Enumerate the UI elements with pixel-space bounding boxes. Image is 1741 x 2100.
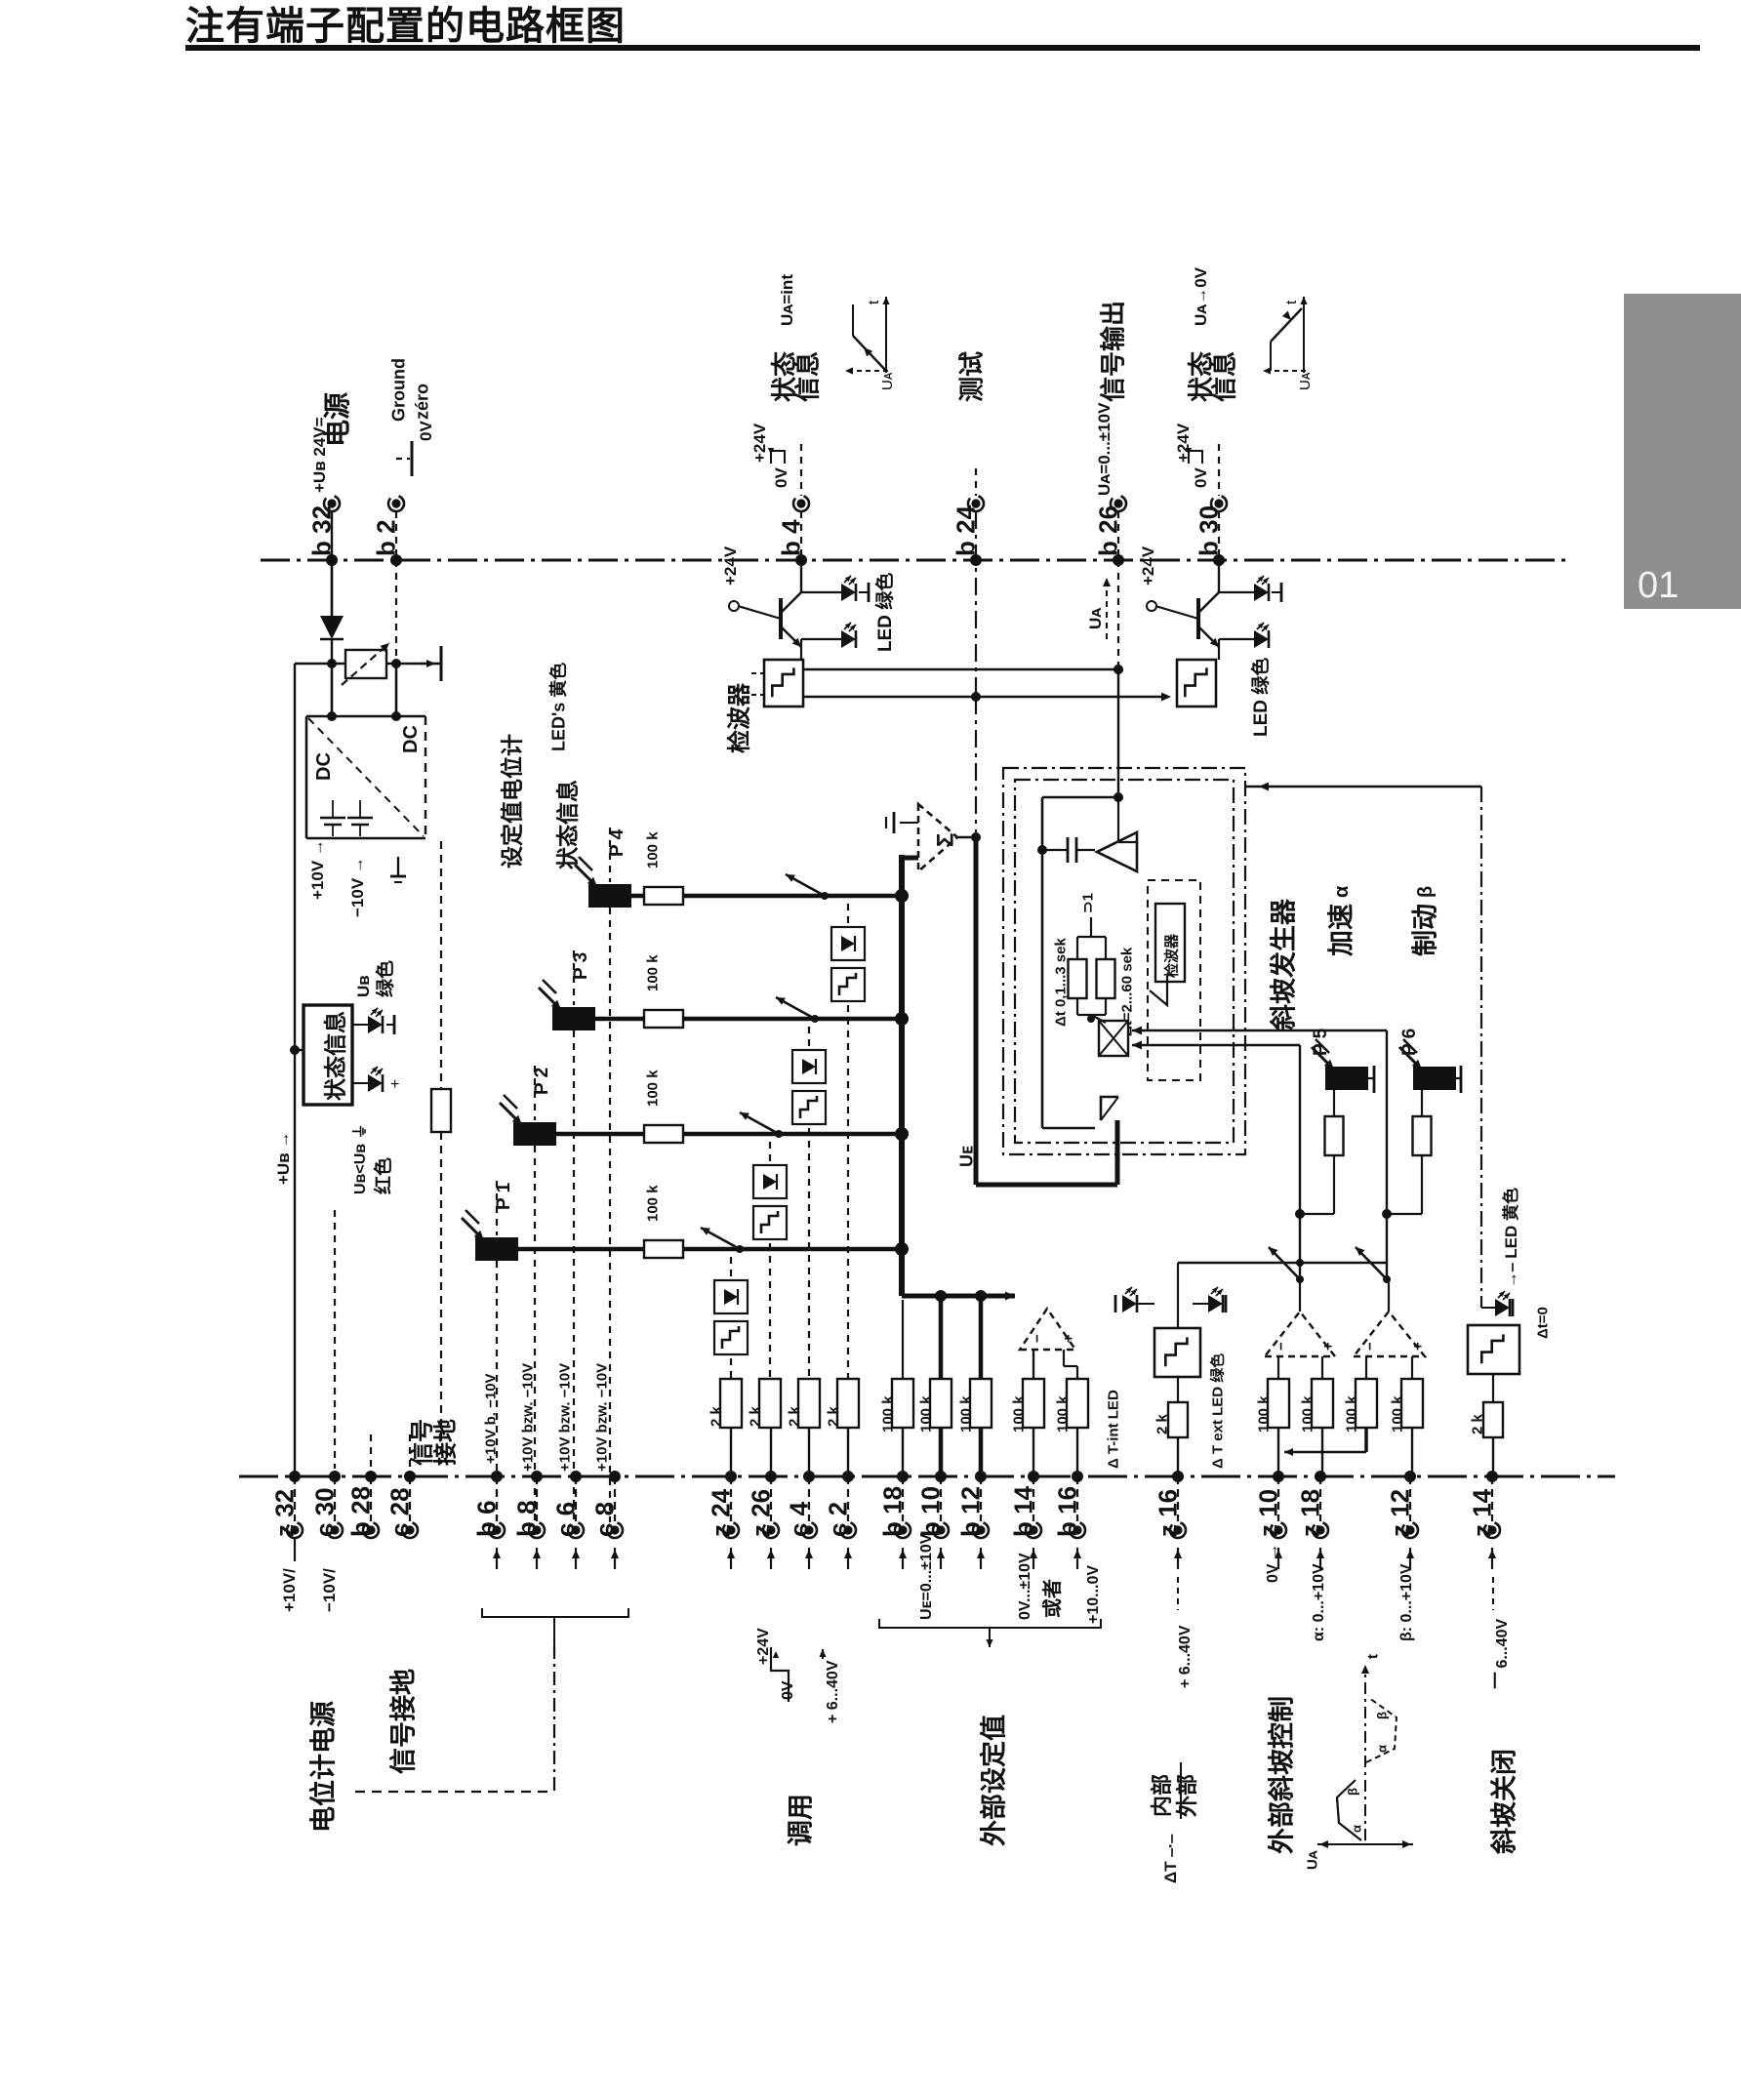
- comparator K1: [1020, 1309, 1075, 1350]
- switch beta: [1383, 1275, 1391, 1283]
- top terminal rail: [261, 559, 1566, 562]
- resistor 100k (P3): [644, 1010, 683, 1028]
- ramp box outer: [1003, 768, 1245, 1154]
- svg-text:调用: 调用: [787, 1794, 816, 1846]
- svg-text:ΔT ⎯·⎯: ΔT ⎯·⎯: [1161, 1835, 1180, 1883]
- label +6..40V (z14): [1492, 1577, 1494, 1610]
- svg-text:⎺ 6...40V: ⎺ 6...40V: [1494, 1619, 1511, 1689]
- ramp feedback lines A: [1132, 1030, 1387, 1031]
- svg-text:内部: 内部: [1150, 1774, 1174, 1817]
- svg-text:b 12: b 12: [955, 1486, 985, 1537]
- svg-text:c 30: c 30: [309, 1487, 339, 1537]
- detector dashed box (ramp): [1148, 880, 1200, 1080]
- svg-text:+10V bzw. −10V: +10V bzw. −10V: [593, 1363, 610, 1472]
- svg-text:+10V bzw. −10V: +10V bzw. −10V: [519, 1363, 536, 1472]
- ramp output wire: [1245, 786, 1481, 787]
- wiper wire P3: [595, 1017, 644, 1022]
- opto diode box x=789: [753, 1165, 787, 1198]
- wiper wire P1: [518, 1247, 644, 1252]
- svg-text:Uᴀ=int: Uᴀ=int: [778, 274, 796, 326]
- opto diode box x=829: [792, 1050, 826, 1083]
- wire to bus y=1280: [683, 1247, 902, 1252]
- trapezoid waveform sketch: [1317, 1843, 1413, 1845]
- LED b4 upper: [801, 591, 841, 593]
- resistor 100k (ref): [1356, 1379, 1377, 1428]
- svg-text:外部设定值: 外部设定值: [979, 1715, 1009, 1846]
- svg-text:检波器: 检波器: [1162, 933, 1180, 978]
- svg-text:LED 绿色: LED 绿色: [873, 573, 896, 652]
- signal-ground dash link: [553, 1645, 555, 1792]
- svg-text:+ 6...40V: + 6...40V: [825, 1660, 841, 1723]
- potentiometer P2: [513, 1122, 556, 1146]
- select wire 内部/外部: [1178, 1262, 1386, 1264]
- recall step glyph: [771, 1647, 789, 1702]
- svg-text:z 12: z 12: [1385, 1489, 1414, 1537]
- wire resistor-to-rail x=1059: [1032, 1428, 1034, 1476]
- -10V dashed feed lower: [440, 1132, 442, 1464]
- bus bottom branch: [902, 1294, 1015, 1299]
- resistor 2k (z16): [1168, 1402, 1188, 1437]
- call drop chain x=829: [808, 1027, 810, 1379]
- svg-text:红色: 红色: [372, 1157, 394, 1194]
- LED dt-ext: [1208, 1295, 1223, 1312]
- svg-text:测试: 测试: [956, 351, 986, 402]
- z14 chain wires: [1492, 1374, 1494, 1402]
- svg-text:+: +: [1319, 1342, 1336, 1351]
- svg-text:zéro: zéro: [412, 384, 431, 420]
- ramp glyph wire: [1116, 1097, 1118, 1120]
- capacitor C2 (in U1): [347, 817, 373, 820]
- wire b2 into DCDC: [395, 560, 397, 665]
- step glyph b4: [771, 451, 785, 464]
- resistor 100k (b16): [1067, 1379, 1088, 1428]
- svg-text:+10V →: +10V →: [308, 839, 327, 900]
- switch box X: [1099, 1021, 1128, 1056]
- ramp glyph: [1101, 1097, 1118, 1120]
- chassis ground (varistor): [420, 663, 435, 665]
- svg-text:t: t: [866, 300, 882, 304]
- svg-text:电位计电源: 电位计电源: [308, 1701, 339, 1833]
- terminal z 32: [289, 1471, 301, 1482]
- svg-text:01: 01: [1638, 565, 1679, 606]
- integrator out wire: [1042, 851, 1097, 853]
- wire resistor-to-rail x=1104: [1076, 1428, 1078, 1476]
- terminal b 8: [531, 1471, 543, 1482]
- svg-text:2 k: 2 k: [1154, 1413, 1170, 1434]
- ramp resistor Rb: [1097, 959, 1115, 998]
- svg-text:DC: DC: [313, 752, 335, 781]
- svg-text:0V: 0V: [417, 421, 435, 441]
- svg-text:斜坡发生器: 斜坡发生器: [1269, 898, 1299, 1031]
- -10V dashed feed: [440, 841, 442, 1089]
- terminal b 18: [897, 1471, 909, 1482]
- svg-text:100 k: 100 k: [1343, 1395, 1359, 1433]
- svg-text:+Uʙ →: +Uʙ →: [274, 1132, 293, 1185]
- svg-text:b 14: b 14: [1008, 1485, 1037, 1537]
- LED b30 upper: [1219, 591, 1254, 593]
- svg-text:−: −: [1029, 1334, 1045, 1343]
- Q2 emitter to detector: [1218, 647, 1220, 660]
- svg-text:α: α: [1350, 1825, 1364, 1833]
- op-amp integrator: [1097, 832, 1137, 871]
- ramp-off dash line: [1480, 787, 1482, 1297]
- svg-text:b 16: b 16: [1052, 1486, 1081, 1537]
- wire status box: [295, 1049, 304, 1051]
- hysteresis box z14: [1468, 1325, 1519, 1374]
- svg-text:z 14: z 14: [1467, 1488, 1496, 1537]
- terminal z 12: [1404, 1471, 1416, 1482]
- P5 resistor chain: [1333, 1090, 1335, 1116]
- status box 状态信息: [304, 1005, 352, 1105]
- switch (y=1162): [775, 1130, 783, 1138]
- c30 dashed feed: [334, 1210, 336, 1469]
- svg-text:0V: 0V: [780, 1680, 796, 1700]
- svg-text:信号: 信号: [409, 1419, 436, 1466]
- left +10V rail (vertical): [294, 664, 296, 1469]
- potentiometer P6: [1413, 1067, 1456, 1090]
- svg-text:电源: 电源: [322, 392, 352, 447]
- svg-text:α: 0...+10V: α: 0...+10V: [1311, 1563, 1327, 1641]
- comparator K3 (beta): [1354, 1312, 1425, 1356]
- opto diode box x=749: [714, 1280, 748, 1313]
- K1 inputs: [1032, 1350, 1034, 1379]
- resistor 2k x=829: [798, 1379, 820, 1428]
- svg-text:0V: 0V: [772, 467, 790, 488]
- svg-text:Δ T ext LED 绿色: Δ T ext LED 绿色: [1208, 1353, 1226, 1469]
- svg-text:Δt=0: Δt=0: [1534, 1307, 1551, 1339]
- summing bus (thick): [899, 855, 905, 1296]
- step glyph b30: [1189, 451, 1202, 464]
- resistor 100k (b18): [892, 1379, 913, 1428]
- svg-text:Ground: Ground: [388, 358, 408, 422]
- wire b30 lead: [1218, 511, 1220, 560]
- svg-text:Uᴀ: Uᴀ: [879, 372, 896, 390]
- z16 chain wires: [1177, 1304, 1179, 1328]
- wire b2 junction: [395, 665, 398, 716]
- svg-text:P 5: P 5: [1311, 1028, 1331, 1056]
- wire b4 lead: [800, 511, 802, 560]
- svg-text:100 k: 100 k: [1389, 1395, 1405, 1433]
- svg-text:−10V/: −10V/: [320, 1568, 339, 1612]
- int/ext divider: [1180, 1762, 1182, 1819]
- svg-text:LED 绿色: LED 绿色: [1249, 658, 1272, 737]
- svg-text:Uᴀ: Uᴀ: [1086, 608, 1105, 629]
- resistor 2k x=789: [759, 1379, 781, 1428]
- bus to sigma: [902, 856, 918, 861]
- svg-text:外部: 外部: [1175, 1774, 1199, 1817]
- svg-text:+10...0V: +10...0V: [1085, 1565, 1102, 1624]
- resistor R-10 (feed): [431, 1089, 451, 1132]
- svg-text:信号接地: 信号接地: [389, 1669, 419, 1774]
- resistor 100k (z10): [1268, 1379, 1289, 1428]
- svg-text:z 16: z 16: [1153, 1489, 1182, 1537]
- LED b4 lower: [800, 639, 802, 647]
- terminal b 12: [975, 1471, 987, 1482]
- terminal b 6: [491, 1471, 503, 1482]
- svg-text:β: β: [1346, 1788, 1360, 1796]
- terminal z 14: [1486, 1471, 1498, 1482]
- svg-text:b 8: b 8: [511, 1500, 541, 1537]
- comparator K2 (alpha): [1265, 1312, 1335, 1356]
- svg-text:β: β: [1415, 886, 1437, 898]
- wiper wire P4: [631, 894, 644, 899]
- svg-text:信息: 信息: [1209, 351, 1238, 402]
- terminal c 2: [842, 1471, 854, 1482]
- resistor 2k x=749: [720, 1379, 742, 1428]
- svg-text:DC: DC: [400, 725, 422, 753]
- svg-text:2 k: 2 k: [708, 1405, 724, 1427]
- terminal z 18: [1315, 1471, 1326, 1482]
- svg-text:Uᴀ→0V: Uᴀ→0V: [1192, 266, 1210, 326]
- title rule: [185, 45, 1700, 51]
- LED b30 lower: [1218, 639, 1220, 647]
- terminal c 8: [609, 1471, 621, 1482]
- terminal c 28: [404, 1471, 416, 1482]
- terminal z 10: [1273, 1471, 1284, 1482]
- capacitor C1 (in U1): [320, 817, 345, 820]
- b12 wire up (thick): [979, 1296, 984, 1379]
- feed line P1: [496, 1181, 498, 1235]
- feed line P2: [534, 1066, 536, 1120]
- svg-text:+24V: +24V: [750, 423, 769, 463]
- wire b2 lead: [395, 511, 397, 560]
- svg-text:+ 6...40V: + 6...40V: [1177, 1625, 1194, 1688]
- svg-text:b 10: b 10: [915, 1486, 945, 1537]
- resistor 100k (z12): [1401, 1379, 1423, 1428]
- wire resistor-to-rail x=1207: [1177, 1437, 1179, 1476]
- svg-text:外部斜坡控制: 外部斜坡控制: [1267, 1696, 1297, 1854]
- svg-text:z 18: z 18: [1295, 1489, 1324, 1537]
- svg-text:+24V: +24V: [1174, 423, 1193, 463]
- terminal c 6: [570, 1471, 582, 1482]
- svg-text:+: +: [390, 1076, 399, 1093]
- diode D1: [331, 560, 333, 616]
- call drop chain x=869: [847, 904, 849, 1379]
- P6 resistor chain: [1421, 1090, 1423, 1116]
- svg-text:z 24: z 24: [706, 1488, 735, 1537]
- svg-text:c 2: c 2: [823, 1502, 852, 1537]
- Q1 emitter to detector: [800, 647, 802, 660]
- svg-text:绿色: 绿色: [374, 960, 396, 997]
- resistor 100k (P2): [644, 1125, 683, 1143]
- resistor 2k x=869: [837, 1379, 859, 1428]
- line B down: [1299, 1045, 1301, 1279]
- terminal b 14: [1028, 1471, 1039, 1482]
- wire to bus y=918: [683, 894, 902, 899]
- varistor RV1: [345, 650, 386, 678]
- detector box 检波器 (2): [1177, 660, 1216, 707]
- b14 wire up: [1032, 1350, 1034, 1379]
- svg-text:状态信息: 状态信息: [554, 780, 580, 869]
- svg-text:Δt 0,1...3 sek: Δt 0,1...3 sek: [1052, 938, 1069, 1027]
- opto step box x=789: [753, 1206, 787, 1239]
- svg-text:Uᴇ: Uᴇ: [956, 1146, 976, 1167]
- label output ground: [397, 857, 399, 876]
- wire z16 up: [1177, 1263, 1179, 1304]
- LED green UB: [352, 1024, 368, 1026]
- feed line P4: [609, 828, 611, 882]
- detector wire B: [803, 696, 1165, 698]
- terminal c 4: [803, 1471, 815, 1482]
- wire resistor-to-rail x=1310: [1277, 1428, 1279, 1476]
- UE thick line: [974, 837, 979, 1185]
- terminal z 24: [725, 1471, 737, 1482]
- wire resistor-to-rail x=925: [902, 1428, 904, 1476]
- wire resistor-to-rail x=790: [770, 1428, 772, 1476]
- svg-text:100 k: 100 k: [644, 1070, 661, 1107]
- svg-text:100 k: 100 k: [644, 831, 661, 868]
- waveform sketch 2 (UA to 0): [1263, 297, 1314, 390]
- svg-text:z 10: z 10: [1253, 1489, 1282, 1537]
- sigma ground cap: [900, 822, 918, 824]
- call drop chain x=749: [730, 1257, 732, 1379]
- switch (y=918): [821, 892, 829, 900]
- svg-text:β: 0...+10V: β: 0...+10V: [1398, 1563, 1415, 1641]
- b28 stub: [370, 1434, 372, 1469]
- LED yellow: [1480, 1297, 1482, 1308]
- svg-text:Σ: Σ: [933, 833, 959, 847]
- svg-text:加速: 加速: [1327, 904, 1356, 956]
- svg-text:P 6: P 6: [1399, 1029, 1420, 1056]
- transistor Q2: [1155, 606, 1198, 619]
- ramp inner loop wires: [1042, 796, 1118, 799]
- b26/UA line: [1117, 560, 1119, 669]
- page tab 01: [1624, 294, 1741, 609]
- svg-text:α: α: [1375, 1745, 1390, 1753]
- svg-text:100 k: 100 k: [957, 1395, 974, 1433]
- svg-text:信号输出: 信号输出: [1098, 301, 1127, 402]
- UE/test line (b24): [975, 511, 977, 697]
- wire b32 into U1: [331, 664, 334, 716]
- bottom terminal rail: [239, 1475, 1615, 1478]
- call drop chain x=789: [769, 1142, 771, 1379]
- svg-text:z 26: z 26: [746, 1489, 775, 1537]
- detector wire A: [803, 668, 1118, 670]
- potentiometer P5: [1325, 1067, 1368, 1090]
- wire resistor-to-rail x=869: [847, 1428, 849, 1476]
- svg-text:Uᴇ=0...±10V: Uᴇ=0...±10V: [918, 1533, 935, 1620]
- svg-text:+: +: [1409, 1342, 1426, 1351]
- svg-text:c 8: c 8: [589, 1502, 619, 1537]
- LED red UB: [352, 1082, 368, 1084]
- svg-text:t: t: [1364, 1654, 1381, 1659]
- svg-text:2 k: 2 k: [1469, 1413, 1485, 1434]
- wire resistor-to-rail x=1530: [1492, 1437, 1494, 1476]
- svg-text:Δ T-int LED: Δ T-int LED: [1105, 1390, 1121, 1469]
- resistor 100k (P1): [644, 1240, 683, 1258]
- svg-text:b 6: b 6: [471, 1500, 501, 1537]
- svg-text:Uʙ: Uʙ: [354, 975, 373, 997]
- svg-text:z 32: z 32: [269, 1489, 299, 1537]
- svg-text:2 k: 2 k: [747, 1405, 763, 1427]
- svg-text:c 28: c 28: [385, 1487, 414, 1537]
- svg-text:+24V: +24V: [755, 1628, 772, 1665]
- UA up arrow: [1106, 578, 1108, 639]
- Q2 collector to b30: [1218, 560, 1220, 592]
- terminal b 10: [935, 1471, 947, 1482]
- svg-text:0V...±10V: 0V...±10V: [1017, 1553, 1033, 1620]
- svg-text:Uᴀ=0...±10V: Uᴀ=0...±10V: [1095, 402, 1113, 496]
- svg-text:LED's 黄色: LED's 黄色: [547, 663, 568, 751]
- resistor 100k (P4): [644, 887, 683, 905]
- brace b6-c8 (pots): [482, 1608, 628, 1617]
- integrator cap: [1067, 837, 1070, 863]
- opto diode box x=869: [831, 927, 865, 960]
- svg-text:b 28: b 28: [345, 1486, 375, 1537]
- svg-text:100 k: 100 k: [644, 954, 661, 991]
- switch (y=1044): [811, 1015, 819, 1023]
- switch (y=1280): [736, 1245, 744, 1253]
- ground zero symbol: [396, 458, 410, 460]
- ramp res wires: [1076, 937, 1078, 959]
- switch alpha: [1296, 1275, 1304, 1283]
- z32 feed: [294, 1469, 296, 1476]
- wire to bus y=1162: [683, 1132, 902, 1137]
- hysteresis box z16: [1154, 1328, 1200, 1377]
- svg-text:+10V/: +10V/: [280, 1568, 299, 1612]
- K2 wires: [1299, 1279, 1301, 1312]
- line A down: [1386, 1030, 1388, 1279]
- svg-text:+10V b. −10V: +10V b. −10V: [482, 1373, 499, 1464]
- potentiometer P4: [588, 884, 631, 908]
- sigma output: [957, 836, 976, 838]
- svg-text:Uᴀ: Uᴀ: [1304, 1850, 1320, 1870]
- svg-text:→⎯ LED 黄色: →⎯ LED 黄色: [1501, 1188, 1520, 1288]
- terminal z 16: [1172, 1471, 1184, 1482]
- svg-text:或者: 或者: [1040, 1579, 1064, 1618]
- DC/DC converter U1: [306, 715, 425, 718]
- svg-text:−10V →: −10V →: [348, 857, 367, 917]
- svg-text:斜坡关闭: 斜坡关闭: [1490, 1749, 1519, 1855]
- svg-text:t: t: [1283, 300, 1300, 304]
- detector box 检波器 (1): [764, 660, 803, 707]
- svg-text:−: −: [1273, 1342, 1289, 1351]
- svg-text:c 4: c 4: [784, 1501, 813, 1537]
- svg-text:+: +: [1060, 1334, 1076, 1343]
- potentiometer P1: [475, 1237, 518, 1261]
- wiper wire P2: [556, 1132, 644, 1137]
- feed line P3: [573, 950, 575, 1005]
- LED dt-int: [1122, 1295, 1137, 1312]
- opto step box x=829: [792, 1091, 826, 1124]
- wire resistor-to-rail x=829: [808, 1428, 810, 1476]
- svg-text:注有端子配置的电路框图: 注有端子配置的电路框图: [185, 5, 626, 48]
- svg-text:+10V bzw. −10V: +10V bzw. −10V: [556, 1363, 573, 1472]
- svg-text:设定值电位计: 设定值电位计: [499, 734, 524, 868]
- resistor 100k (z18): [1312, 1379, 1333, 1428]
- node b26 junction: [1113, 665, 1123, 674]
- svg-text:信息: 信息: [792, 351, 822, 402]
- svg-text:100 k: 100 k: [1054, 1395, 1071, 1433]
- svg-text:β: β: [1375, 1712, 1390, 1719]
- resistor 2k (z14): [1483, 1402, 1503, 1437]
- svg-text:100 k: 100 k: [879, 1395, 896, 1433]
- terminal c 30: [329, 1471, 341, 1482]
- ramp feedback lines B: [1132, 1044, 1300, 1046]
- ramp box inner border: [1015, 780, 1234, 1143]
- c28 stub: [409, 1434, 411, 1469]
- wire resistor-to-rail x=1005: [979, 1428, 984, 1476]
- svg-text:+24V: +24V: [1139, 545, 1157, 586]
- Q1 collector to b4: [800, 560, 802, 592]
- svg-text:⊃1: ⊃1: [1079, 893, 1096, 913]
- svg-text:−: −: [1361, 1342, 1378, 1351]
- svg-text:0V →: 0V →: [1265, 1544, 1281, 1583]
- svg-text:100 k: 100 k: [644, 1185, 661, 1222]
- resistor 100k (b12): [970, 1379, 992, 1428]
- amp glyph in ramp box: [1150, 976, 1167, 1005]
- wire +UB horizontal: [295, 663, 441, 665]
